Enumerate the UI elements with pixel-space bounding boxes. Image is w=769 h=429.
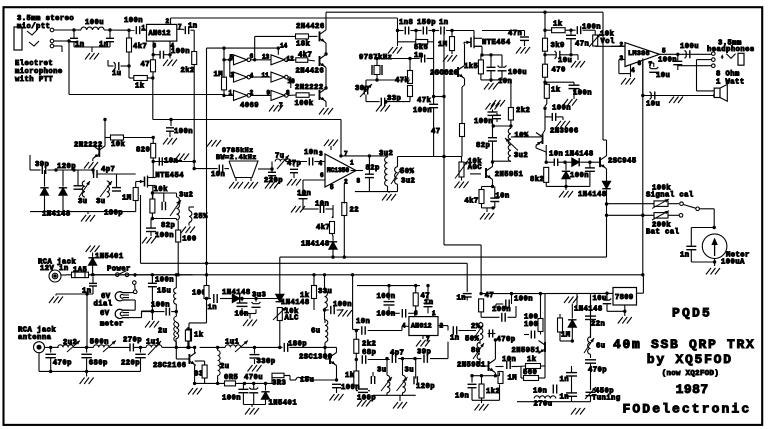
- svg-text:3: 3: [319, 150, 323, 157]
- svg-text:100p: 100p: [357, 395, 376, 403]
- svg-text:by XQ5FOD: by XQ5FOD: [647, 352, 733, 367]
- svg-text:4p7: 4p7: [101, 166, 115, 174]
- svg-text:2: 2: [620, 41, 624, 48]
- svg-text:30p: 30p: [355, 85, 369, 93]
- svg-text:33p: 33p: [387, 95, 401, 103]
- svg-text:6u: 6u: [596, 343, 606, 351]
- svg-text:AN612: AN612: [149, 30, 171, 38]
- svg-text:10n: 10n: [356, 318, 370, 326]
- svg-text:680p: 680p: [89, 360, 108, 368]
- svg-text:antenna: antenna: [18, 334, 52, 342]
- svg-text:100n: 100n: [124, 17, 143, 25]
- svg-text:3: 3: [620, 55, 624, 62]
- svg-text:ALC: ALC: [285, 315, 300, 323]
- svg-text:Vol: Vol: [601, 38, 616, 46]
- svg-text:47: 47: [485, 292, 495, 300]
- svg-text:3: 3: [231, 71, 235, 78]
- svg-text:(now XQ2FOD): (now XQ2FOD): [662, 370, 719, 378]
- svg-text:1k: 1k: [300, 292, 310, 300]
- svg-text:5: 5: [230, 54, 234, 61]
- svg-text:2: 2: [250, 89, 254, 96]
- svg-text:3u3: 3u3: [252, 292, 266, 300]
- svg-text:1987: 1987: [676, 382, 709, 397]
- svg-text:33u: 33u: [318, 288, 332, 296]
- svg-text:1k: 1k: [553, 21, 563, 29]
- svg-text:NTE454: NTE454: [482, 39, 511, 47]
- svg-text:1n: 1n: [424, 299, 434, 307]
- svg-text:1n: 1n: [208, 304, 218, 312]
- svg-text:10n: 10n: [304, 149, 318, 157]
- svg-text:1n: 1n: [457, 295, 467, 303]
- svg-text:1N4148: 1N4148: [301, 241, 330, 249]
- svg-text:2u2: 2u2: [63, 339, 77, 347]
- svg-text:6: 6: [250, 53, 254, 60]
- svg-text:2k2: 2k2: [362, 341, 376, 349]
- svg-text:100u: 100u: [680, 43, 699, 51]
- svg-text:5k6: 5k6: [414, 44, 428, 52]
- svg-text:25%: 25%: [194, 213, 209, 221]
- svg-text:3u: 3u: [405, 367, 415, 375]
- svg-text:3R3: 3R3: [272, 380, 286, 388]
- svg-text:47n: 47n: [575, 41, 589, 49]
- svg-text:6u: 6u: [311, 328, 321, 336]
- svg-text:100n: 100n: [492, 306, 511, 314]
- svg-text:1k: 1k: [135, 83, 145, 91]
- svg-text:120p: 120p: [416, 383, 435, 391]
- svg-text:2N5951: 2N5951: [512, 347, 541, 355]
- svg-text:1N4148: 1N4148: [281, 299, 310, 307]
- svg-text:1N4148: 1N4148: [574, 306, 603, 314]
- svg-text:MC1350: MC1350: [327, 167, 350, 174]
- svg-text:1k: 1k: [551, 87, 561, 95]
- svg-text:2u: 2u: [220, 363, 230, 371]
- svg-text:15u: 15u: [300, 377, 314, 385]
- svg-text:1N4148: 1N4148: [565, 151, 594, 159]
- svg-text:82p: 82p: [161, 222, 175, 230]
- svg-text:100n: 100n: [222, 395, 241, 403]
- svg-text:3u: 3u: [377, 367, 387, 375]
- svg-text:1N5401: 1N5401: [269, 400, 298, 408]
- svg-text:82p: 82p: [476, 142, 490, 150]
- svg-text:10n: 10n: [502, 356, 516, 364]
- svg-text:1k2: 1k2: [486, 388, 500, 396]
- svg-text:220p: 220p: [121, 360, 140, 368]
- svg-text:1k: 1k: [194, 332, 204, 340]
- svg-text:10n: 10n: [495, 193, 509, 201]
- svg-text:4: 4: [250, 72, 254, 79]
- svg-text:2N4426: 2N4426: [296, 68, 325, 76]
- svg-text:4: 4: [631, 67, 635, 74]
- svg-text:3u2: 3u2: [179, 192, 193, 200]
- svg-text:10n: 10n: [533, 388, 547, 396]
- svg-text:1n: 1n: [75, 41, 85, 49]
- svg-text:4k7: 4k7: [298, 52, 312, 60]
- svg-text:1n: 1n: [560, 393, 570, 401]
- svg-text:2N4426: 2N4426: [296, 23, 325, 31]
- svg-text:100n: 100n: [377, 293, 396, 301]
- svg-text:100n: 100n: [552, 105, 571, 113]
- svg-text:1u: 1u: [112, 70, 122, 78]
- svg-text:10u: 10u: [646, 101, 660, 109]
- svg-text:100n: 100n: [377, 311, 396, 319]
- svg-text:8: 8: [286, 89, 290, 96]
- svg-text:120p: 120p: [57, 163, 76, 171]
- svg-text:100n: 100n: [151, 302, 170, 310]
- svg-text:10u: 10u: [656, 72, 670, 80]
- svg-text:4069: 4069: [240, 102, 259, 110]
- svg-text:10n: 10n: [455, 393, 469, 401]
- svg-text:100uA: 100uA: [721, 259, 745, 267]
- svg-text:470: 470: [552, 67, 566, 75]
- svg-text:22: 22: [350, 207, 360, 215]
- svg-text:7809: 7809: [615, 294, 633, 302]
- svg-text:10n: 10n: [297, 190, 311, 198]
- svg-text:10%: 10%: [514, 132, 529, 140]
- svg-text:4: 4: [402, 322, 406, 329]
- svg-text:18k: 18k: [296, 41, 311, 49]
- svg-text:4k7: 4k7: [316, 224, 330, 232]
- svg-text:2N3906: 2N3906: [550, 128, 579, 136]
- svg-text:39p: 39p: [417, 349, 431, 357]
- svg-text:1n: 1n: [99, 41, 109, 49]
- svg-text:1N5401: 1N5401: [95, 253, 124, 261]
- svg-text:2SC1306: 2SC1306: [299, 354, 332, 362]
- svg-text:100n: 100n: [333, 301, 352, 309]
- svg-text:1N4148: 1N4148: [578, 191, 607, 199]
- svg-text:PQD5: PQD5: [672, 305, 712, 320]
- svg-text:1A5: 1A5: [73, 267, 87, 275]
- svg-text:10k: 10k: [111, 141, 126, 149]
- svg-text:2SC2166: 2SC2166: [153, 362, 186, 370]
- svg-text:3u: 3u: [78, 198, 88, 206]
- svg-text:2N2222: 2N2222: [74, 142, 103, 150]
- svg-text:3k9: 3k9: [551, 42, 565, 50]
- svg-text:100u: 100u: [85, 19, 104, 27]
- svg-text:4p7: 4p7: [390, 350, 404, 358]
- svg-text:100n: 100n: [570, 172, 589, 180]
- svg-text:47: 47: [431, 128, 441, 136]
- svg-text:6V: 6V: [100, 310, 110, 318]
- svg-text:mic/ptt: mic/ptt: [17, 23, 50, 31]
- svg-text:microphone: microphone: [15, 68, 63, 76]
- svg-text:8k2: 8k2: [530, 176, 544, 184]
- svg-text:470p: 470p: [497, 336, 516, 344]
- svg-text:1 Watt: 1 Watt: [716, 79, 745, 87]
- svg-text:1M: 1M: [122, 195, 132, 203]
- svg-text:100u: 100u: [508, 69, 527, 77]
- svg-text:8 Ohm: 8 Ohm: [716, 71, 740, 79]
- svg-text:1n: 1n: [450, 335, 460, 343]
- svg-text:10: 10: [288, 78, 296, 85]
- svg-text:Electret: Electret: [15, 60, 53, 68]
- svg-text:4k7: 4k7: [464, 198, 478, 206]
- svg-text:3u2: 3u2: [514, 152, 528, 160]
- svg-text:Signal cal: Signal cal: [646, 192, 694, 200]
- svg-text:3u: 3u: [96, 198, 106, 206]
- svg-text:2N5951: 2N5951: [495, 171, 524, 179]
- svg-text:1M: 1M: [438, 41, 448, 49]
- svg-text:3u2: 3u2: [401, 177, 415, 185]
- svg-text:Tuning: Tuning: [592, 395, 621, 403]
- svg-text:1k5: 1k5: [464, 63, 478, 71]
- svg-text:4: 4: [319, 160, 323, 167]
- svg-text:150p: 150p: [417, 19, 436, 27]
- svg-text:Bat cal: Bat cal: [646, 229, 680, 237]
- svg-text:1: 1: [229, 89, 233, 96]
- svg-text:180p: 180p: [104, 210, 123, 218]
- svg-text:100n: 100n: [582, 24, 601, 32]
- svg-text:1n: 1n: [560, 376, 570, 384]
- svg-text:2: 2: [166, 18, 170, 25]
- svg-text:40m SSB QRP TRX: 40m SSB QRP TRX: [613, 337, 756, 352]
- svg-text:270p: 270p: [123, 336, 142, 344]
- svg-text:470p: 470p: [53, 360, 72, 368]
- svg-text:headphones: headphones: [707, 46, 755, 54]
- svg-text:12V in: 12V in: [40, 265, 69, 273]
- svg-text:100n: 100n: [155, 277, 174, 285]
- svg-text:14: 14: [280, 42, 288, 49]
- svg-text:2k2: 2k2: [516, 107, 530, 115]
- svg-text:LM386: LM386: [628, 50, 650, 58]
- svg-text:100n: 100n: [155, 232, 174, 240]
- svg-text:470u: 470u: [244, 374, 263, 382]
- svg-text:820: 820: [136, 147, 150, 155]
- svg-text:1k: 1k: [345, 372, 355, 380]
- svg-text:1n: 1n: [188, 23, 198, 31]
- svg-text:10u: 10u: [593, 295, 607, 303]
- svg-text:50%: 50%: [465, 336, 480, 344]
- svg-text:FODelectronic: FODelectronic: [623, 401, 752, 416]
- svg-text:NTE454: NTE454: [155, 172, 184, 180]
- svg-text:13: 13: [262, 53, 270, 60]
- svg-text:1n: 1n: [414, 52, 424, 60]
- svg-text:100n: 100n: [514, 296, 533, 304]
- svg-text:2SC828: 2SC828: [430, 70, 459, 78]
- svg-text:100n: 100n: [474, 118, 493, 126]
- svg-text:11: 11: [262, 72, 270, 79]
- svg-text:7: 7: [649, 61, 653, 68]
- svg-text:12: 12: [287, 55, 295, 62]
- svg-text:1M: 1M: [508, 375, 518, 383]
- svg-text:meter: meter: [100, 321, 124, 329]
- svg-text:with PTT: with PTT: [15, 76, 53, 84]
- svg-text:1M: 1M: [214, 71, 224, 79]
- svg-text:100n: 100n: [658, 57, 677, 65]
- svg-text:330p: 330p: [257, 358, 276, 366]
- svg-text:AGC: AGC: [468, 164, 483, 172]
- svg-text:2SC945: 2SC945: [608, 158, 637, 166]
- svg-text:5: 5: [330, 184, 334, 191]
- svg-text:8: 8: [357, 177, 361, 184]
- svg-text:10u: 10u: [558, 57, 572, 65]
- svg-text:5: 5: [662, 47, 666, 54]
- svg-text:2u: 2u: [158, 328, 168, 336]
- svg-text:9: 9: [267, 89, 271, 96]
- svg-text:47: 47: [141, 61, 151, 69]
- svg-text:68p: 68p: [362, 349, 376, 357]
- svg-text:2k2: 2k2: [181, 67, 195, 75]
- svg-text:100k: 100k: [295, 100, 314, 108]
- svg-text:100: 100: [182, 236, 196, 244]
- svg-text:1n: 1n: [439, 19, 449, 27]
- svg-text:10n: 10n: [549, 151, 563, 159]
- svg-text:100n: 100n: [171, 48, 190, 56]
- svg-text:3.5mm stereo: 3.5mm stereo: [17, 15, 74, 23]
- svg-text:100n: 100n: [573, 90, 592, 98]
- svg-text:dial: dial: [94, 301, 113, 309]
- svg-text:82p: 82p: [366, 165, 380, 173]
- svg-text:1: 1: [350, 159, 354, 166]
- svg-text:1M: 1M: [561, 332, 571, 340]
- svg-text:10n: 10n: [315, 201, 329, 209]
- svg-text:AN612: AN612: [411, 322, 432, 329]
- svg-text:50%: 50%: [400, 168, 415, 176]
- svg-text:1n: 1n: [680, 252, 690, 260]
- svg-text:22n: 22n: [591, 321, 605, 329]
- svg-text:6: 6: [638, 60, 642, 67]
- svg-text:1n8: 1n8: [399, 19, 413, 27]
- svg-text:100n: 100n: [413, 107, 432, 115]
- svg-text:6: 6: [320, 172, 324, 179]
- svg-text:47k: 47k: [395, 77, 410, 85]
- svg-text:15u: 15u: [157, 288, 171, 296]
- svg-text:4k7: 4k7: [133, 43, 147, 51]
- svg-text:100n: 100n: [174, 128, 193, 136]
